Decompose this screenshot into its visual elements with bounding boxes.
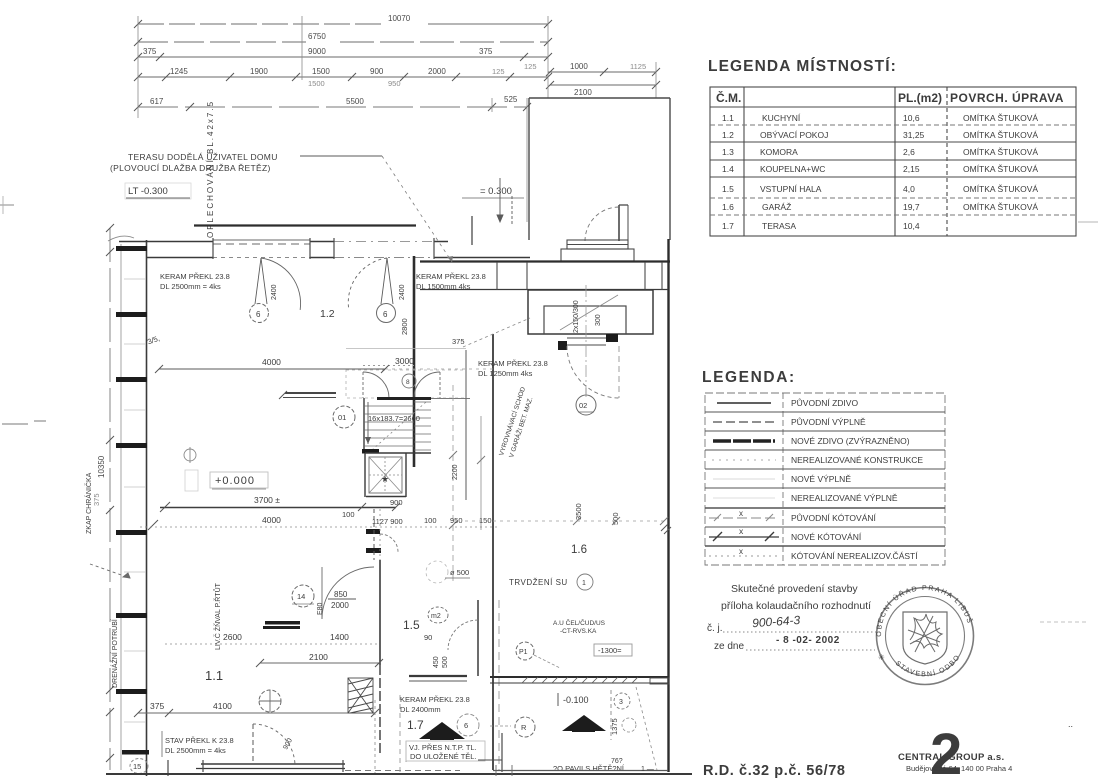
svg-text:1.6: 1.6 <box>722 202 734 212</box>
circled 6 left <box>250 304 269 323</box>
svg-text:TRVDŽENÍ SU: TRVDŽENÍ SU <box>509 578 568 587</box>
svg-text:OMÍTKA ŠTUKOVÁ: OMÍTKA ŠTUKOVÁ <box>963 147 1038 157</box>
svg-text:4,0: 4,0 <box>903 184 915 194</box>
svg-text:76?: 76? <box>611 758 623 765</box>
hall door arc from living <box>322 567 374 619</box>
top wall window1 lines <box>213 240 310 244</box>
svg-text:900: 900 <box>390 498 403 507</box>
terrace edge dashed <box>399 695 401 776</box>
svg-text:Č.M.: Č.M. <box>716 90 741 105</box>
svg-text:1 —: 1 — <box>641 766 654 773</box>
svg-text:1125: 1125 <box>630 62 646 71</box>
terrace door swing 2 <box>381 258 393 304</box>
bathroom outline <box>365 453 431 497</box>
svg-text:2600: 2600 <box>223 632 242 642</box>
komora double door arcs <box>363 372 389 398</box>
svg-text:VSTUPNÍ HALA: VSTUPNÍ HALA <box>760 184 822 194</box>
stair left wall <box>363 398 365 452</box>
small level box garage <box>594 644 632 656</box>
svg-text:DL 1250mm 4ks: DL 1250mm 4ks <box>478 369 533 378</box>
left wall outer face thin <box>120 244 122 770</box>
dims 2100 row <box>260 662 379 664</box>
symbol puvodni zdivo <box>717 402 771 404</box>
symbol nerealizovane vyplne <box>713 497 775 499</box>
symbol kotovani nerealizovane <box>709 555 779 557</box>
small mark upper left edge <box>0 204 14 206</box>
svg-text:2000: 2000 <box>331 601 349 610</box>
circled 6 right <box>377 304 396 323</box>
svg-text:+0.000: +0.000 <box>215 475 255 487</box>
svg-text:OMÍTKA ŠTUKOVÁ: OMÍTKA ŠTUKOVÁ <box>963 164 1038 174</box>
svg-text:P1: P1 <box>519 649 528 656</box>
svg-text:LEGENDA:: LEGENDA: <box>702 369 796 386</box>
svg-text:OMÍTKA ŠTUKOVÁ: OMÍTKA ŠTUKOVÁ <box>963 184 1038 194</box>
top wall window2 faint <box>334 241 434 243</box>
svg-text:DL 2400mm: DL 2400mm <box>400 705 441 714</box>
porch south wall <box>420 260 670 262</box>
svg-text:525: 525 <box>504 95 518 104</box>
stair walking line <box>372 402 426 450</box>
svg-text:3500: 3500 <box>574 503 583 520</box>
svg-text:02: 02 <box>579 401 587 410</box>
svg-text:15: 15 <box>133 762 141 771</box>
svg-text:KUCHYNÍ: KUCHYNÍ <box>762 113 801 123</box>
svg-text:-0.100: -0.100 <box>563 695 589 705</box>
svg-text:E80: E80 <box>317 602 324 615</box>
hatched block new wall <box>348 678 373 713</box>
circle o500 <box>426 561 448 583</box>
svg-text:617: 617 <box>150 97 164 106</box>
house entry door below chimney <box>558 334 618 350</box>
svg-text:1: 1 <box>582 580 586 587</box>
right wall break mark <box>661 524 671 534</box>
svg-text:6: 6 <box>464 721 468 730</box>
round official stamp <box>877 588 974 685</box>
small arrows near terrace line <box>497 178 512 224</box>
circled P1 <box>516 642 534 660</box>
svg-text:příloha kolaudačního rozhodnut: příloha kolaudačního rozhodnutí <box>721 600 871 612</box>
svg-text:31,25: 31,25 <box>903 130 925 140</box>
svg-text:KOMORA: KOMORA <box>760 147 798 157</box>
south facade window lines <box>201 763 345 765</box>
circled B <box>515 717 535 737</box>
svg-text:PŮVODNÍ VÝPLNĚ: PŮVODNÍ VÝPLNĚ <box>791 416 866 427</box>
svg-text:KERAM PŘEKL 23.8: KERAM PŘEKL 23.8 <box>416 272 486 281</box>
svg-text:x: x <box>739 509 743 518</box>
svg-text:450: 450 <box>433 656 440 668</box>
top wall outer face <box>119 241 448 243</box>
svg-text:4000: 4000 <box>262 515 281 525</box>
svg-text:DL 2500mm = 4ks: DL 2500mm = 4ks <box>160 282 221 291</box>
circled 01 <box>333 406 355 428</box>
svg-text:1245: 1245 <box>170 67 188 76</box>
svg-text:1500: 1500 <box>308 79 325 88</box>
svg-text:850: 850 <box>334 590 348 599</box>
room table frame <box>710 87 1076 236</box>
svg-text:R.D. č.32 p.č. 56/78: R.D. č.32 p.č. 56/78 <box>703 763 846 778</box>
entrance steps <box>561 240 634 261</box>
svg-text:STAV PŘEKL K 23.8: STAV PŘEKL K 23.8 <box>165 736 234 745</box>
mid dim 4000 line <box>159 368 385 370</box>
circled 14 <box>292 585 314 607</box>
svg-text:125: 125 <box>492 67 505 76</box>
svg-text:PŮVODNÍ ZDIVO: PŮVODNÍ ZDIVO <box>791 397 858 408</box>
svg-text:KÓTOVÁNÍ NEREALIZOV.ČÁSTÍ: KÓTOVÁNÍ NEREALIZOV.ČÁSTÍ <box>791 551 918 561</box>
svg-text:150: 150 <box>479 516 492 525</box>
dotted dim line 4000 lower <box>140 526 497 528</box>
svg-text:- 8 -02- 2002: - 8 -02- 2002 <box>776 635 840 646</box>
svg-text:NOVÉ VÝPLNĚ: NOVÉ VÝPLNĚ <box>791 474 851 484</box>
dim line 2100 <box>550 84 656 86</box>
leader arrow to wall <box>90 564 130 578</box>
shower cabin <box>369 457 402 493</box>
svg-text:OBÝVACÍ POKOJ: OBÝVACÍ POKOJ <box>760 130 828 140</box>
symbol nove vyplne <box>713 478 775 480</box>
svg-text:6: 6 <box>383 310 388 319</box>
komora walls <box>346 349 466 366</box>
dim ticks row4 <box>134 20 552 81</box>
chimney block inner <box>544 306 626 334</box>
svg-text:POVRCH. ÚPRAVA: POVRCH. ÚPRAVA <box>950 90 1064 105</box>
svg-text:TERASU DODĚLÁ UŽIVATEL DOMU: TERASU DODĚLÁ UŽIVATEL DOMU <box>128 152 278 162</box>
svg-text:3000: 3000 <box>395 356 414 366</box>
svg-text:DL 2500mm = 4ks: DL 2500mm = 4ks <box>165 746 226 755</box>
svg-text:č. j.: č. j. <box>707 623 723 634</box>
svg-text:2x150/300: 2x150/300 <box>573 300 580 333</box>
svg-text:1400: 1400 <box>330 632 349 642</box>
dim line 1000/1125 extension right <box>548 71 656 73</box>
extension verticals <box>138 16 656 222</box>
living/hall wall bottom verticals <box>379 665 381 756</box>
axis dashdot vertical <box>585 285 587 400</box>
dim line 10070 <box>138 23 548 25</box>
svg-text:2000: 2000 <box>428 67 446 76</box>
komora east wall <box>465 350 467 500</box>
hall door to garage arc <box>448 620 478 650</box>
svg-text:1.4: 1.4 <box>722 164 734 174</box>
svg-text:KOUPELNA+WC: KOUPELNA+WC <box>760 164 825 174</box>
chimney diagonal <box>560 295 618 330</box>
svg-text:90: 90 <box>424 633 432 642</box>
garage mid dim line <box>465 520 668 522</box>
svg-text:2100: 2100 <box>309 652 328 662</box>
terrace diagonal leader <box>636 687 657 770</box>
dim line 6750 <box>138 41 548 43</box>
chimney block outer <box>528 290 653 334</box>
new lintel black bars <box>265 621 300 625</box>
svg-text:1000: 1000 <box>570 62 588 71</box>
svg-text:NOVÉ ZDIVO (ZVÝRAZNĚNO): NOVÉ ZDIVO (ZVÝRAZNĚNO) <box>791 436 910 446</box>
linetype table frame <box>705 393 945 565</box>
svg-text:10070: 10070 <box>388 14 411 23</box>
svg-text:m2: m2 <box>431 613 441 620</box>
new partition black chunks <box>366 529 380 534</box>
svg-text:2800: 2800 <box>400 318 409 335</box>
svg-text:R: R <box>521 723 527 732</box>
svg-text:1.7: 1.7 <box>407 718 424 732</box>
stamp emblem shield <box>903 612 947 664</box>
patio door arc bottom <box>252 724 254 764</box>
svg-text:KERAM PŘEKL 23.8: KERAM PŘEKL 23.8 <box>478 359 548 368</box>
svg-text:1900: 1900 <box>250 67 268 76</box>
svg-text:Skutečné provedení stavby: Skutečné provedení stavby <box>731 583 858 595</box>
linetype labels <box>791 397 923 561</box>
entrance door leaf <box>618 205 620 241</box>
wall switch symbol <box>184 449 196 461</box>
svg-text:375: 375 <box>143 47 157 56</box>
svg-text:..: .. <box>1068 719 1073 729</box>
svg-text:PL.(m2): PL.(m2) <box>898 91 942 105</box>
stray dash right of table <box>1078 221 1098 223</box>
svg-text:GARÁŽ: GARÁŽ <box>762 202 791 212</box>
porch wall jambs <box>497 262 662 290</box>
svg-text:3700 ±: 3700 ± <box>254 495 280 505</box>
central vertical wall <box>413 256 416 467</box>
entrance door swing <box>585 207 619 241</box>
circled 8 pair <box>402 374 416 388</box>
svg-text:1.3: 1.3 <box>722 147 734 157</box>
svg-text:14: 14 <box>297 592 305 601</box>
svg-text:10,6: 10,6 <box>903 113 920 123</box>
svg-text:950: 950 <box>388 79 401 88</box>
garage door arrow <box>419 722 465 739</box>
svg-text:NOVÉ KÓTOVÁNÍ: NOVÉ KÓTOVÁNÍ <box>791 532 862 542</box>
svg-text:3: 3 <box>619 699 623 706</box>
svg-text:TERASA: TERASA <box>762 221 796 231</box>
top wall inner face <box>146 257 530 259</box>
svg-text:NEREALIZOVANÉ VÝPLNĚ: NEREALIZOVANÉ VÝPLNĚ <box>791 493 898 503</box>
svg-text:DL 1500mm 4ks: DL 1500mm 4ks <box>416 282 471 291</box>
porch wall stub <box>471 216 473 245</box>
svg-text:10350: 10350 <box>97 455 106 478</box>
svg-text:A.U ČEL/ČUD/US: A.U ČEL/ČUD/US <box>553 618 606 627</box>
garage door jamb bottom <box>501 733 503 772</box>
svg-text:9000: 9000 <box>308 47 326 56</box>
break mark left edge <box>2 421 46 424</box>
svg-text:6750: 6750 <box>308 32 326 41</box>
symbol nove zdivo <box>713 439 775 442</box>
left wall inner face <box>146 240 148 776</box>
left wall piers (black) <box>116 246 149 755</box>
symbol puvodni kotovani <box>709 514 779 521</box>
leader to terrace <box>382 156 452 262</box>
svg-text:1.5: 1.5 <box>722 184 734 194</box>
circled 3 <box>614 693 630 709</box>
svg-text:1.7: 1.7 <box>722 221 734 231</box>
kitchen counter bar <box>285 392 336 394</box>
svg-text:1500: 1500 <box>312 67 330 76</box>
svg-text:2,15: 2,15 <box>903 164 920 174</box>
svg-text:2100: 2100 <box>574 88 592 97</box>
svg-text:KERAM PŘEKL 23.8: KERAM PŘEKL 23.8 <box>160 272 230 281</box>
linetype symbols <box>709 403 779 556</box>
dim line 375/9000/375 <box>138 56 548 58</box>
dim 3700 line <box>160 507 396 509</box>
terrace north hatched wall <box>490 677 669 684</box>
svg-text:125: 125 <box>524 62 537 71</box>
svg-text:OMÍTKA ŠTUKOVÁ: OMÍTKA ŠTUKOVÁ <box>963 113 1038 123</box>
bottom sheet line <box>106 773 692 775</box>
svg-text:1.1: 1.1 <box>205 668 223 683</box>
svg-text:DRENÁŽNÍ POTRUBÍ: DRENÁŽNÍ POTRUBÍ <box>110 619 119 688</box>
svg-text:900: 900 <box>370 67 384 76</box>
svg-text:375: 375 <box>452 337 465 346</box>
svg-text:950: 950 <box>450 516 463 525</box>
symbol puvodni vyplne <box>713 421 775 423</box>
svg-text:1.6: 1.6 <box>571 544 587 556</box>
wc door arc <box>380 534 398 552</box>
garage left wall <box>492 334 494 770</box>
dim line 617/5500/525 <box>138 106 527 108</box>
svg-text:OMÍTKA ŠTUKOVÁ: OMÍTKA ŠTUKOVÁ <box>963 130 1038 140</box>
svg-text:VJ. PŘES N.T.P. TL.: VJ. PŘES N.T.P. TL. <box>409 743 477 752</box>
circled 02 <box>585 388 587 395</box>
svg-text:ZKAP CHRÁNIČKA: ZKAP CHRÁNIČKA <box>84 472 93 534</box>
stair arrow down <box>367 402 369 444</box>
top-left corner tick <box>108 236 134 241</box>
svg-text:16x183.7=2660: 16x183.7=2660 <box>368 414 420 423</box>
svg-text:✳: ✳ <box>878 653 885 662</box>
svg-text:10,4: 10,4 <box>903 221 920 231</box>
svg-text:?O PAVILS HĚTĚ?NÍ: ?O PAVILS HĚTĚ?NÍ <box>553 764 625 773</box>
svg-text:KERAM PŘEKL 23.8: KERAM PŘEKL 23.8 <box>400 695 470 704</box>
svg-text:2200: 2200 <box>452 464 459 480</box>
garage wall inner dashed <box>498 600 500 770</box>
svg-text:ze dne: ze dne <box>714 641 744 652</box>
dim line detail row <box>138 76 548 78</box>
svg-text:x: x <box>739 547 743 556</box>
svg-text:-1300=: -1300= <box>598 646 622 655</box>
svg-text:(PLOVOUCÍ DLAŽBA DRUŽBA ŘET: (PLOVOUCÍ DLAŽBA DRUŽBA ŘETĚZ) <box>110 163 271 173</box>
circled ref 15 bottom left <box>130 759 148 774</box>
svg-text:100: 100 <box>342 510 355 519</box>
svg-text:500: 500 <box>442 656 449 668</box>
komora dashed surround <box>346 370 466 398</box>
svg-text:5500: 5500 <box>346 97 364 106</box>
svg-text:8: 8 <box>406 379 410 386</box>
room table header <box>716 90 1064 105</box>
svg-text:2400: 2400 <box>271 284 278 300</box>
right wall of house <box>667 239 669 772</box>
hall bottom wall <box>409 675 467 677</box>
small cabinet box <box>185 470 198 491</box>
svg-text:375: 375 <box>150 701 164 711</box>
svg-text:LEGENDA MÍSTNOSTÍ:: LEGENDA MÍSTNOSTÍ: <box>708 58 897 75</box>
circled el symbol <box>259 690 281 712</box>
circled 6 terrace <box>457 714 479 736</box>
terrace top edge <box>194 224 416 226</box>
left vertical dim line <box>109 228 111 770</box>
svg-text:375: 375 <box>479 47 493 56</box>
vertical dim x453 <box>452 385 454 582</box>
hall right wall <box>477 600 479 676</box>
svg-text:ø 500: ø 500 <box>450 568 469 577</box>
svg-text:19,7: 19,7 <box>903 202 920 212</box>
svg-text:NEREALIZOVANÉ KONSTRUKCE: NEREALIZOVANÉ KONSTRUKCE <box>791 455 923 465</box>
svg-text:★: ★ <box>381 474 389 484</box>
svg-text:PŮVODNÍ KÓTOVÁNÍ: PŮVODNÍ KÓTOVÁNÍ <box>791 512 876 523</box>
symbol nove kotovani <box>709 532 779 541</box>
entry door swing into hall <box>567 346 619 398</box>
stair treads <box>364 402 431 450</box>
svg-text:100: 100 <box>424 516 437 525</box>
wall above stairs (new, dark) <box>377 397 431 400</box>
svg-text:LT -0.300: LT -0.300 <box>128 186 168 197</box>
svg-text:300: 300 <box>595 314 602 326</box>
svg-text:375: 375 <box>92 493 101 506</box>
svg-text:OMÍTKA ŠTUKOVÁ: OMÍTKA ŠTUKOVÁ <box>963 202 1038 212</box>
circled m2 <box>428 607 448 623</box>
window jambs top wall <box>213 238 434 259</box>
left wall window sills faint <box>124 279 146 722</box>
svg-text:4100: 4100 <box>213 701 232 711</box>
svg-text:1.2: 1.2 <box>722 130 734 140</box>
svg-text:LIV.Č ŽŇVAL P.ŘTŮT: LIV.Č ŽŇVAL P.ŘTŮT <box>213 582 222 650</box>
faint dashes right of cj line <box>1040 621 1088 623</box>
svg-text:1.2: 1.2 <box>320 308 335 320</box>
svg-text:1.5: 1.5 <box>403 618 420 632</box>
svg-text:2,6: 2,6 <box>903 147 915 157</box>
svg-text:1127 900: 1127 900 <box>372 517 403 526</box>
porch outline <box>529 98 670 240</box>
svg-text:01: 01 <box>338 413 346 422</box>
black corner new wall <box>362 449 379 454</box>
svg-text:CENTRAL GROUP a.s.: CENTRAL GROUP a.s. <box>898 752 1004 763</box>
entry arrow <box>562 715 606 731</box>
room table rows <box>722 113 1038 231</box>
lion squiggles <box>908 614 942 652</box>
hall left wall <box>379 560 381 665</box>
svg-text:DO ULOŽENÉ TĚL.: DO ULOŽENÉ TĚL. <box>410 752 477 761</box>
terrace door swing 1 <box>255 258 267 304</box>
garage dim vertical x481 <box>480 416 482 530</box>
svg-text:6: 6 <box>256 310 261 319</box>
svg-text:2400: 2400 <box>399 284 406 300</box>
svg-text:= 0.300: = 0.300 <box>480 186 512 197</box>
svg-text:-CT-RVS.KA: -CT-RVS.KA <box>560 628 597 635</box>
svg-text:4000: 4000 <box>262 357 281 367</box>
dims 2600/1400 row <box>165 643 379 645</box>
garage bottom dim marks <box>493 770 668 772</box>
svg-text:Budějovická 64, 140 00 Praha 4: Budějovická 64, 140 00 Praha 4 <box>906 764 1012 773</box>
svg-text:1.1: 1.1 <box>722 113 734 123</box>
symbol nerealizovane konstrukce <box>712 459 776 461</box>
